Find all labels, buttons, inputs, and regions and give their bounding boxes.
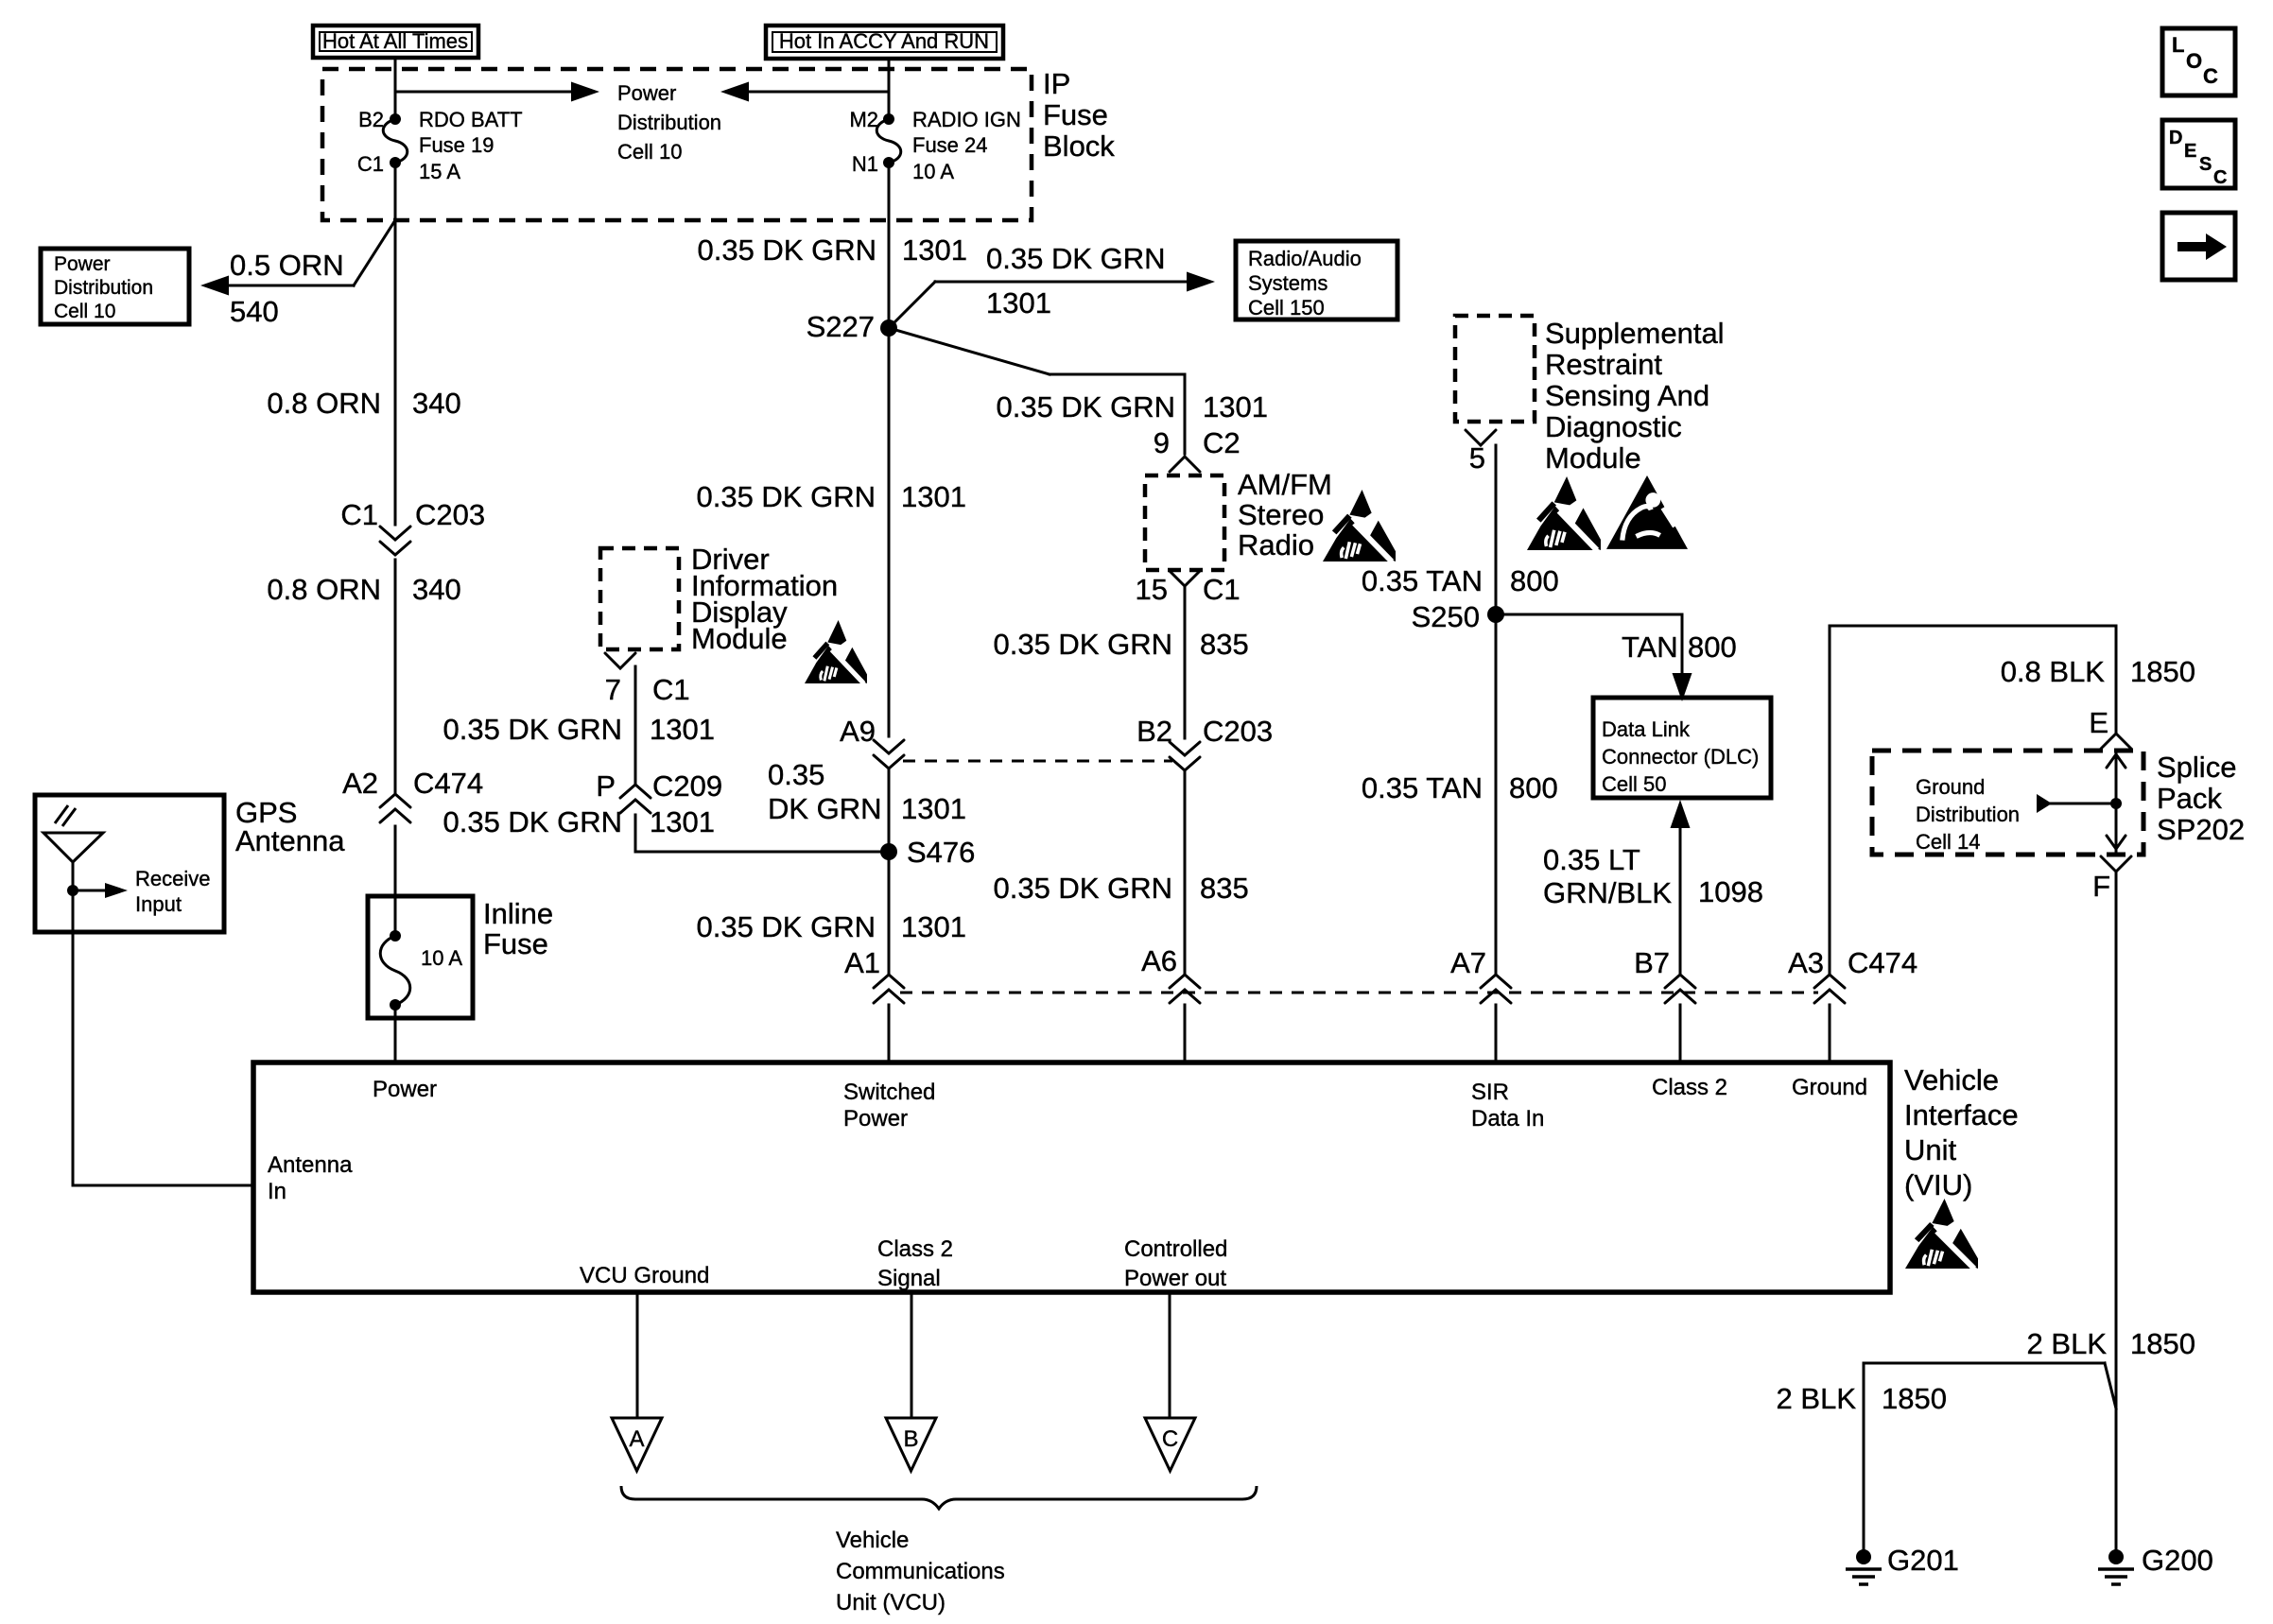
svg-text:M2: M2 — [849, 108, 878, 131]
svg-text:Pack: Pack — [2157, 782, 2222, 815]
svg-text:Systems: Systems — [1248, 271, 1327, 295]
svg-text:Ground: Ground — [1792, 1075, 1867, 1100]
svg-text:Fuse: Fuse — [1043, 98, 1108, 131]
svg-text:B: B — [903, 1426, 918, 1452]
svg-text:A2: A2 — [342, 767, 378, 800]
svg-text:1301: 1301 — [650, 713, 715, 746]
svg-text:Module: Module — [1545, 441, 1641, 475]
svg-text:Antenna: Antenna — [268, 1152, 353, 1178]
svg-text:C203: C203 — [415, 498, 485, 531]
svg-text:Power out: Power out — [1124, 1266, 1226, 1291]
svg-text:C474: C474 — [413, 767, 483, 800]
svg-text:1098: 1098 — [1698, 875, 1763, 908]
svg-text:A9: A9 — [840, 715, 876, 748]
svg-text:C1: C1 — [357, 152, 384, 176]
svg-text:Power: Power — [843, 1106, 908, 1132]
svg-text:7: 7 — [605, 673, 621, 706]
svg-text:G200: G200 — [2142, 1544, 2213, 1577]
svg-text:D: D — [2169, 128, 2182, 148]
svg-text:0.35 DK GRN: 0.35 DK GRN — [442, 805, 622, 838]
svg-text:0.35 DK GRN: 0.35 DK GRN — [996, 390, 1175, 423]
svg-text:A: A — [629, 1426, 644, 1452]
svg-text:SIR: SIR — [1471, 1080, 1509, 1105]
svg-text:1850: 1850 — [1882, 1382, 1947, 1415]
svg-text:0.35 DK GRN: 0.35 DK GRN — [986, 242, 1166, 275]
svg-text:Distribution: Distribution — [617, 111, 721, 134]
svg-text:Fuse 24: Fuse 24 — [912, 133, 988, 157]
svg-text:C: C — [2203, 64, 2218, 88]
svg-text:C2: C2 — [1203, 426, 1241, 459]
svg-text:1301: 1301 — [1203, 390, 1268, 423]
svg-text:E: E — [2089, 706, 2108, 739]
svg-text:S250: S250 — [1412, 600, 1480, 633]
svg-text:800: 800 — [1688, 631, 1737, 664]
svg-text:1850: 1850 — [2130, 655, 2195, 688]
svg-text:1850: 1850 — [2130, 1327, 2195, 1360]
svg-text:1301: 1301 — [986, 286, 1051, 320]
svg-text:Class 2: Class 2 — [1652, 1075, 1727, 1100]
svg-text:1301: 1301 — [901, 910, 966, 943]
svg-text:Radio: Radio — [1238, 528, 1314, 561]
svg-text:Sensing And: Sensing And — [1545, 379, 1709, 412]
svg-text:Cell 50: Cell 50 — [1602, 772, 1666, 796]
svg-text:Fuse 19: Fuse 19 — [419, 133, 495, 157]
svg-text:S227: S227 — [807, 310, 875, 343]
svg-text:Distribution: Distribution — [54, 277, 153, 299]
svg-text:Connector (DLC): Connector (DLC) — [1602, 745, 1759, 769]
svg-text:TAN: TAN — [1622, 631, 1678, 664]
svg-text:0.35: 0.35 — [768, 758, 824, 791]
svg-text:Power: Power — [54, 253, 111, 275]
svg-text:E: E — [2184, 141, 2196, 162]
svg-text:0.35 DK GRN: 0.35 DK GRN — [696, 480, 876, 513]
svg-text:VCU Ground: VCU Ground — [580, 1263, 709, 1288]
svg-text:SP202: SP202 — [2157, 813, 2245, 846]
svg-text:In: In — [268, 1179, 286, 1204]
svg-text:Unit: Unit — [1904, 1133, 1957, 1166]
svg-text:Module: Module — [691, 622, 788, 655]
svg-text:0.35 LT: 0.35 LT — [1543, 843, 1640, 876]
svg-text:Diagnostic: Diagnostic — [1545, 410, 1682, 443]
svg-text:IP: IP — [1043, 67, 1070, 100]
svg-text:800: 800 — [1510, 564, 1559, 597]
svg-text:DK GRN: DK GRN — [768, 792, 882, 825]
svg-text:C209: C209 — [652, 769, 722, 803]
svg-text:15 A: 15 A — [419, 160, 460, 183]
svg-text:Restraint: Restraint — [1545, 348, 1662, 381]
svg-text:A3: A3 — [1788, 946, 1824, 979]
svg-text:835: 835 — [1200, 872, 1249, 905]
svg-text:835: 835 — [1200, 628, 1249, 661]
svg-text:B2: B2 — [1136, 715, 1172, 748]
svg-text:2 BLK: 2 BLK — [1777, 1382, 1857, 1415]
svg-text:C1: C1 — [1203, 573, 1241, 606]
svg-text:Cell 10: Cell 10 — [54, 301, 115, 322]
svg-text:0.35 TAN: 0.35 TAN — [1362, 771, 1483, 804]
svg-text:5: 5 — [1469, 441, 1485, 475]
svg-text:0.8 ORN: 0.8 ORN — [267, 387, 381, 420]
svg-text:Cell 14: Cell 14 — [1916, 830, 1980, 854]
svg-text:C1: C1 — [340, 498, 378, 531]
svg-text:O: O — [2186, 49, 2202, 73]
svg-text:Vehicle: Vehicle — [1904, 1063, 1999, 1097]
svg-text:Ground: Ground — [1916, 775, 1985, 799]
svg-text:N1: N1 — [852, 152, 878, 176]
svg-text:0.35 DK GRN: 0.35 DK GRN — [696, 910, 876, 943]
svg-text:15: 15 — [1136, 573, 1168, 606]
svg-text:Vehicle: Vehicle — [836, 1528, 909, 1553]
svg-text:9: 9 — [1154, 426, 1170, 459]
svg-text:RADIO IGN: RADIO IGN — [912, 108, 1021, 131]
svg-text:800: 800 — [1509, 771, 1558, 804]
svg-text:L: L — [2172, 33, 2184, 57]
svg-text:Switched: Switched — [843, 1080, 935, 1105]
svg-text:0.35 TAN: 0.35 TAN — [1362, 564, 1483, 597]
svg-text:Input: Input — [135, 892, 182, 916]
svg-text:B7: B7 — [1634, 946, 1670, 979]
svg-text:Receive: Receive — [135, 867, 210, 890]
svg-text:S476: S476 — [907, 836, 975, 869]
svg-text:340: 340 — [412, 387, 461, 420]
svg-text:0.8 BLK: 0.8 BLK — [2001, 655, 2106, 688]
svg-text:0.35 DK GRN: 0.35 DK GRN — [993, 628, 1172, 661]
svg-text:A6: A6 — [1141, 944, 1177, 977]
svg-text:Inline: Inline — [483, 897, 553, 930]
svg-text:Power: Power — [617, 81, 676, 105]
svg-text:S: S — [2199, 154, 2212, 175]
svg-text:0.5 ORN: 0.5 ORN — [230, 249, 344, 282]
svg-text:Unit (VCU): Unit (VCU) — [836, 1590, 946, 1615]
svg-text:Signal: Signal — [877, 1266, 941, 1291]
svg-text:Cell 150: Cell 150 — [1248, 296, 1325, 320]
svg-text:Block: Block — [1043, 130, 1115, 163]
svg-text:Interface: Interface — [1904, 1098, 2019, 1132]
svg-text:340: 340 — [412, 573, 461, 606]
svg-text:Communications: Communications — [836, 1559, 1005, 1584]
svg-text:C: C — [2213, 167, 2227, 188]
svg-text:Power: Power — [373, 1077, 437, 1102]
svg-text:Antenna: Antenna — [235, 824, 345, 857]
svg-text:G201: G201 — [1887, 1544, 1959, 1577]
svg-text:Radio/Audio: Radio/Audio — [1248, 247, 1362, 270]
svg-text:Hot In ACCY And RUN: Hot In ACCY And RUN — [779, 29, 989, 53]
svg-text:Stereo: Stereo — [1238, 498, 1324, 531]
svg-text:1301: 1301 — [650, 805, 715, 838]
svg-text:C: C — [1162, 1426, 1178, 1452]
svg-text:Supplemental: Supplemental — [1545, 317, 1725, 350]
svg-text:Cell 10: Cell 10 — [617, 140, 682, 164]
svg-text:A7: A7 — [1450, 946, 1486, 979]
svg-text:Fuse: Fuse — [483, 927, 548, 960]
svg-text:C474: C474 — [1848, 946, 1917, 979]
svg-text:0.35 DK GRN: 0.35 DK GRN — [993, 872, 1172, 905]
svg-text:10 A: 10 A — [912, 160, 954, 183]
svg-text:1301: 1301 — [901, 792, 966, 825]
svg-text:2 BLK: 2 BLK — [2027, 1327, 2108, 1360]
svg-text:1301: 1301 — [902, 233, 967, 267]
svg-text:0.35 DK GRN: 0.35 DK GRN — [697, 233, 876, 267]
svg-text:RDO BATT: RDO BATT — [419, 108, 523, 131]
svg-text:AM/FM: AM/FM — [1238, 468, 1332, 501]
svg-text:C203: C203 — [1203, 715, 1273, 748]
svg-text:B2: B2 — [358, 108, 384, 131]
svg-text:540: 540 — [230, 295, 279, 328]
svg-text:1301: 1301 — [901, 480, 966, 513]
svg-text:Data Link: Data Link — [1602, 717, 1691, 741]
svg-text:Controlled: Controlled — [1124, 1236, 1227, 1262]
svg-text:0.8 ORN: 0.8 ORN — [267, 573, 381, 606]
svg-text:F: F — [2092, 870, 2110, 903]
svg-text:10 A: 10 A — [421, 946, 462, 970]
svg-text:Class 2: Class 2 — [877, 1236, 953, 1262]
svg-text:Splice: Splice — [2157, 751, 2236, 784]
svg-text:Data In: Data In — [1471, 1106, 1544, 1132]
svg-text:C1: C1 — [652, 673, 690, 706]
svg-text:P: P — [596, 769, 616, 803]
svg-text:GRN/BLK: GRN/BLK — [1543, 876, 1672, 909]
svg-text:(VIU): (VIU) — [1904, 1168, 1972, 1201]
svg-text:0.35 DK GRN: 0.35 DK GRN — [442, 713, 622, 746]
svg-text:Distribution: Distribution — [1916, 803, 2020, 826]
svg-text:Hot At All Times: Hot At All Times — [322, 29, 468, 53]
svg-text:A1: A1 — [844, 946, 880, 979]
